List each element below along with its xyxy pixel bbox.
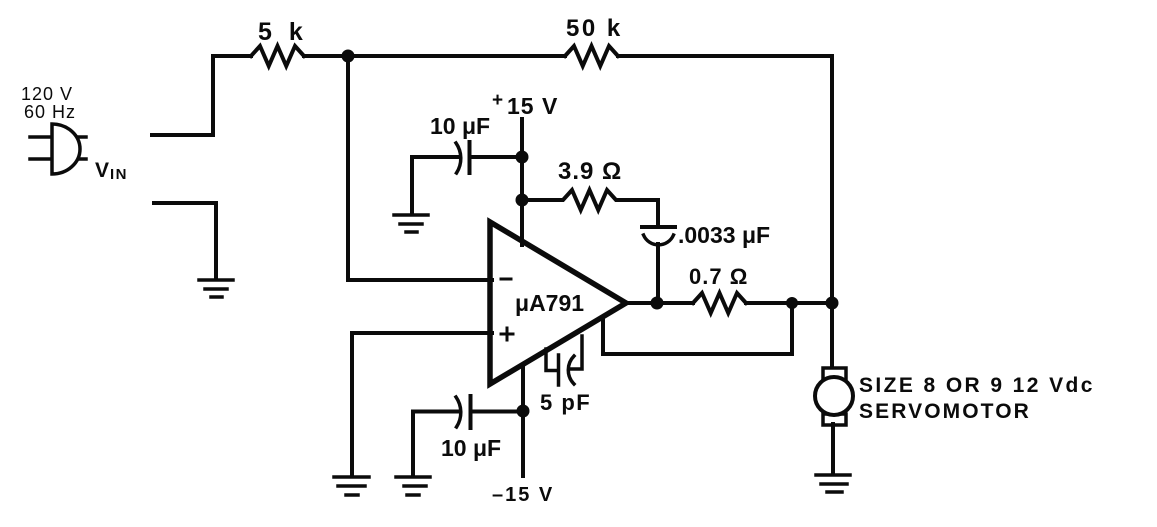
wire -15V supply	[521, 365, 525, 476]
svg-text:.0033 μF: .0033 μF	[678, 222, 770, 248]
resistor R2 50k	[565, 46, 618, 66]
wire C4 to ground	[411, 412, 415, 476]
op-amp U1	[490, 222, 626, 384]
resistor R1 5k	[251, 46, 304, 66]
label SIZE 8 OR 9 12 Vdc	[859, 374, 1095, 397]
AC plug P1	[30, 124, 86, 174]
capacitor C3 5pF	[546, 336, 582, 385]
svg-text:5 k: 5 k	[258, 18, 308, 46]
node output/C2 junction	[651, 297, 664, 310]
wire +15V supply	[520, 119, 524, 245]
label .0033 uF	[678, 222, 770, 248]
ground C4	[396, 477, 430, 495]
wire inverting input	[348, 56, 492, 280]
wire R4 to motor rail	[746, 301, 832, 305]
wire top rail left	[213, 54, 251, 58]
U1 plus sign	[501, 328, 513, 340]
ground C1	[394, 215, 428, 232]
U1 minus sign	[501, 278, 511, 281]
ground non-inverting	[334, 477, 369, 495]
svg-text:SIZE 8 OR 9 12 Vdc: SIZE 8 OR 9 12 Vdc	[859, 374, 1095, 397]
label uA791	[515, 290, 584, 316]
node A junction	[342, 50, 355, 63]
resistor R3 3.9ohm	[522, 190, 658, 210]
node output rail junction	[826, 297, 839, 310]
wire input bottom	[154, 203, 216, 278]
label 3.9 ohm	[558, 158, 622, 185]
svg-text:V: V	[95, 159, 109, 182]
label +15 V	[492, 90, 558, 119]
svg-text:5 pF: 5 pF	[540, 390, 591, 415]
wire C1 to ground	[410, 157, 414, 213]
svg-text:60 Hz: 60 Hz	[24, 102, 76, 122]
label 120V 60Hz	[21, 84, 76, 122]
node sense junction	[786, 297, 798, 309]
label -15 V	[492, 484, 554, 506]
label 5 k	[258, 18, 308, 46]
ground input bottom	[199, 280, 233, 297]
ground motor	[816, 475, 850, 492]
svg-text:0.7 Ω: 0.7 Ω	[689, 264, 748, 289]
node C4 junction	[517, 405, 530, 418]
label 10 uF top	[430, 113, 490, 139]
wire rail right + drop to output	[618, 56, 832, 368]
wire rail mid	[304, 54, 565, 58]
svg-text:10 μF: 10 μF	[430, 113, 490, 139]
label 5 pF	[540, 390, 591, 415]
label 50 k	[566, 15, 623, 42]
label VIN	[95, 159, 128, 183]
svg-text:50 k: 50 k	[566, 15, 623, 42]
motor M1	[815, 368, 853, 425]
node +15V/C1 junction	[516, 151, 529, 164]
svg-text:15 V: 15 V	[507, 93, 558, 119]
svg-text:3.9 Ω: 3.9 Ω	[558, 158, 622, 185]
wire sense feedback	[603, 303, 792, 354]
label 10 uF bottom	[441, 435, 501, 461]
wire non-inverting input	[352, 333, 492, 475]
svg-text:μA791: μA791	[515, 290, 584, 316]
label SERVOMOTOR	[859, 400, 1031, 423]
svg-text:+: +	[492, 90, 503, 111]
svg-text:10 μF: 10 μF	[441, 435, 501, 461]
label 0.7 ohm	[689, 264, 748, 289]
svg-text:–15 V: –15 V	[492, 484, 554, 506]
capacitor C2 .0033uF	[642, 200, 675, 303]
capacitor C1 10uF top	[412, 142, 522, 173]
resistor R4 0.7ohm	[693, 293, 746, 313]
wire output	[626, 301, 693, 305]
svg-text:120 V: 120 V	[21, 84, 73, 104]
svg-text:SERVOMOTOR: SERVOMOTOR	[859, 400, 1031, 423]
wire input top	[152, 56, 213, 135]
wire motor to ground	[831, 424, 835, 473]
capacitor C4 10uF bottom	[413, 396, 523, 428]
node +15V/R3 junction	[516, 194, 529, 207]
svg-text:IN: IN	[110, 166, 128, 183]
